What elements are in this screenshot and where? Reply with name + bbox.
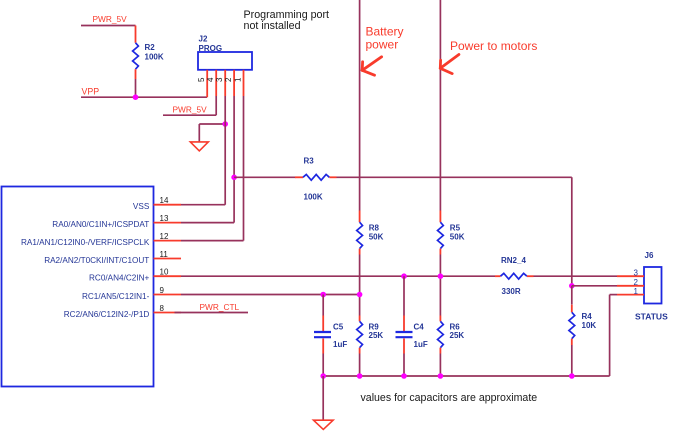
svg-text:50K: 50K xyxy=(450,233,465,242)
wire R2 bottom to VPP xyxy=(135,79,137,98)
resistor R3 xyxy=(295,174,337,180)
wire ground branch vertical xyxy=(198,124,200,142)
wire R3 node down to J6 pin2 node xyxy=(571,177,573,285)
svg-text:RC2/AN6/C12IN2-/P1D: RC2/AN6/C12IN2-/P1D xyxy=(64,310,150,319)
svg-text:1uF: 1uF xyxy=(333,340,347,349)
annotation programming port xyxy=(244,9,330,32)
svg-text:3: 3 xyxy=(634,268,639,277)
svg-text:R2: R2 xyxy=(145,43,156,52)
IC pin 9 stub xyxy=(154,294,182,296)
junction VPP/R2 xyxy=(133,94,139,100)
wire battery col R8-R9 xyxy=(359,255,361,316)
label R9 25K xyxy=(369,323,384,341)
svg-text:2: 2 xyxy=(634,278,639,287)
junction pin10 / motor divider xyxy=(438,273,444,279)
junction J2 pin2 / R3 xyxy=(231,175,237,181)
resistor R2 xyxy=(133,26,139,80)
svg-text:PWR_CTL: PWR_CTL xyxy=(200,302,240,312)
svg-text:RA2/AN2/T0CKI/INT/C1OUT: RA2/AN2/T0CKI/INT/C1OUT xyxy=(44,256,149,265)
wire pin13 to J2 pin2 xyxy=(181,222,234,224)
svg-text:13: 13 xyxy=(160,214,169,223)
svg-text:5: 5 xyxy=(197,77,206,82)
wire C4 bottom xyxy=(403,354,405,377)
svg-text:power: power xyxy=(366,38,399,52)
svg-text:25K: 25K xyxy=(450,331,465,340)
wire pin10 net left xyxy=(181,275,495,277)
svg-text:1: 1 xyxy=(634,287,639,296)
J2 pin 1 stub xyxy=(243,70,245,96)
svg-text:50K: 50K xyxy=(369,233,384,242)
svg-text:R9: R9 xyxy=(369,323,380,332)
svg-text:1uF: 1uF xyxy=(414,340,428,349)
svg-text:Power to motors: Power to motors xyxy=(450,39,537,53)
IC pin 11 stub xyxy=(154,258,182,260)
IC pin 8 stub xyxy=(154,312,182,314)
resistor RN2_4 xyxy=(495,273,534,279)
svg-text:3: 3 xyxy=(215,77,224,82)
wire J6 pin1 vertical xyxy=(609,295,611,376)
IC pin 14 stub xyxy=(154,204,182,206)
J2 pin 5 stub xyxy=(206,70,208,98)
svg-text:R5: R5 xyxy=(450,224,461,233)
junction rail/R6 xyxy=(438,373,444,379)
svg-text:10K: 10K xyxy=(582,321,597,330)
ground symbol (near J2) xyxy=(190,142,208,151)
wire RN2_4 to J6 pin3 xyxy=(534,275,618,277)
IC pin 12 stub xyxy=(154,240,182,242)
J6 pin 1 stub xyxy=(617,294,644,296)
J2 pin 4 stub xyxy=(215,70,217,96)
svg-text:J6: J6 xyxy=(645,251,654,260)
wire C4 top xyxy=(403,276,405,315)
annotation Battery power xyxy=(366,25,404,52)
junction R3/R4/J6 pin2 xyxy=(569,283,575,289)
connector J2 body xyxy=(198,52,252,70)
svg-text:RA0/AN0/C1IN+/ICSPDAT: RA0/AN0/C1IN+/ICSPDAT xyxy=(52,220,149,229)
J6 pin 2 stub xyxy=(617,285,644,287)
label C4 1uF xyxy=(414,323,428,350)
wire C5 top xyxy=(322,295,324,316)
svg-text:25K: 25K xyxy=(369,331,384,340)
wire J2 pin2 down to R3/pin13 xyxy=(233,96,235,223)
svg-text:100K: 100K xyxy=(145,52,164,61)
resistor R9 xyxy=(357,316,363,354)
wire R9 bottom xyxy=(359,354,361,377)
wire R3 left xyxy=(234,176,295,178)
svg-text:C5: C5 xyxy=(333,323,344,332)
wire motor col R5-R6 xyxy=(439,255,441,316)
svg-text:330R: 330R xyxy=(502,287,521,296)
wire PWR_5V mid horizontal xyxy=(163,114,216,116)
junction rail/R9 xyxy=(357,373,363,379)
connector J6 body xyxy=(644,267,662,304)
wire R3 right xyxy=(337,176,572,178)
wire J2 pin4 to PWR_5V xyxy=(215,96,217,115)
svg-text:11: 11 xyxy=(160,250,169,259)
wire ground stub bottom xyxy=(322,376,324,420)
wire J2 pin3 down to VSS xyxy=(224,96,226,205)
svg-text:RA1/AN1/C12IN0-/VERF/ICSPCLK: RA1/AN1/C12IN0-/VERF/ICSPCLK xyxy=(21,238,150,247)
IC pin 10 stub xyxy=(154,275,182,277)
svg-text:RN2_4: RN2_4 xyxy=(501,256,526,265)
svg-text:VPP: VPP xyxy=(82,87,100,97)
svg-text:STATUS: STATUS xyxy=(635,312,668,322)
wire R6 bottom xyxy=(439,354,441,377)
J2 pin 2 stub xyxy=(233,70,235,96)
J2 pin 3 stub xyxy=(224,70,226,96)
ground symbol (bottom) xyxy=(314,420,334,429)
svg-text:9: 9 xyxy=(160,286,165,295)
svg-text:1: 1 xyxy=(234,77,243,82)
wire VSS to J2 pin3 xyxy=(181,204,225,206)
svg-text:12: 12 xyxy=(160,232,169,241)
junction rail/C4 xyxy=(401,373,407,379)
resistor R4 xyxy=(569,305,575,345)
svg-text:8: 8 xyxy=(160,304,165,313)
resistor R6 xyxy=(438,316,444,354)
label R8 50K xyxy=(369,224,384,242)
arrow to motor line xyxy=(440,55,459,74)
wire J2 pin1 down to pin12 xyxy=(243,96,245,241)
svg-text:Battery: Battery xyxy=(366,25,404,39)
junction rail/C5/ground xyxy=(320,373,326,379)
svg-text:R8: R8 xyxy=(369,224,380,233)
wire C5 bottom xyxy=(322,354,324,377)
wire PWR_5V top horizontal xyxy=(81,25,136,27)
label R2 100K xyxy=(145,43,164,61)
wire ground rail xyxy=(323,375,609,377)
junction rail/R4 xyxy=(569,373,575,379)
label R4 10K xyxy=(582,312,597,330)
resistor R8 xyxy=(357,211,363,255)
wire J6 pin1 horizontal xyxy=(610,294,617,296)
svg-text:R4: R4 xyxy=(582,312,593,321)
svg-text:2: 2 xyxy=(224,77,233,82)
wire pin8 PWR_CTL xyxy=(175,312,249,314)
capacitor C4 xyxy=(396,316,413,354)
junction pin9 / battery divider xyxy=(357,292,363,298)
svg-text:RC0/AN4/C2IN+: RC0/AN4/C2IN+ xyxy=(89,274,150,283)
svg-text:PWR_5V: PWR_5V xyxy=(93,14,128,24)
capacitor C5 xyxy=(314,316,331,354)
wire pin12 to J2 pin1 xyxy=(181,240,244,242)
svg-text:not installed: not installed xyxy=(244,20,301,32)
junction pin10 / C4 xyxy=(401,273,407,279)
wire VPP horizontal xyxy=(81,96,207,98)
svg-text:10: 10 xyxy=(160,268,169,277)
wire power-to-motors vertical xyxy=(439,0,441,211)
svg-text:RC1/AN5/C12IN1-: RC1/AN5/C12IN1- xyxy=(82,292,150,301)
svg-text:C4: C4 xyxy=(414,323,425,332)
svg-text:4: 4 xyxy=(206,77,215,82)
junction ground/J2 pin3 xyxy=(222,121,228,127)
svg-text:R3: R3 xyxy=(304,157,315,166)
wire pin9 net xyxy=(181,294,360,296)
svg-text:R6: R6 xyxy=(450,323,461,332)
svg-text:values for capacitors are appr: values for capacitors are approximate xyxy=(361,392,538,404)
wire R4 top xyxy=(571,286,573,305)
resistor R5 xyxy=(438,211,444,255)
wire ground branch horizontal xyxy=(199,123,225,125)
junction pin9 / C5 xyxy=(320,292,326,298)
svg-text:PWR_5V: PWR_5V xyxy=(173,105,208,115)
wire R4 bottom xyxy=(571,345,573,376)
wire J6 pin2 xyxy=(572,285,617,287)
svg-text:14: 14 xyxy=(160,196,169,205)
label R5 50K xyxy=(450,224,465,242)
label C5 1uF xyxy=(333,323,347,350)
svg-text:VSS: VSS xyxy=(133,202,150,211)
J6 pin 3 stub xyxy=(617,275,644,277)
svg-text:100K: 100K xyxy=(304,193,323,202)
arrow to battery line xyxy=(362,57,381,75)
IC pin 13 stub xyxy=(154,222,182,224)
svg-text:Programming port: Programming port xyxy=(244,9,330,21)
IC U1 body xyxy=(2,187,154,387)
label R6 25K xyxy=(450,323,465,341)
wire battery power vertical xyxy=(359,0,361,211)
svg-text:J2: J2 xyxy=(199,35,208,44)
